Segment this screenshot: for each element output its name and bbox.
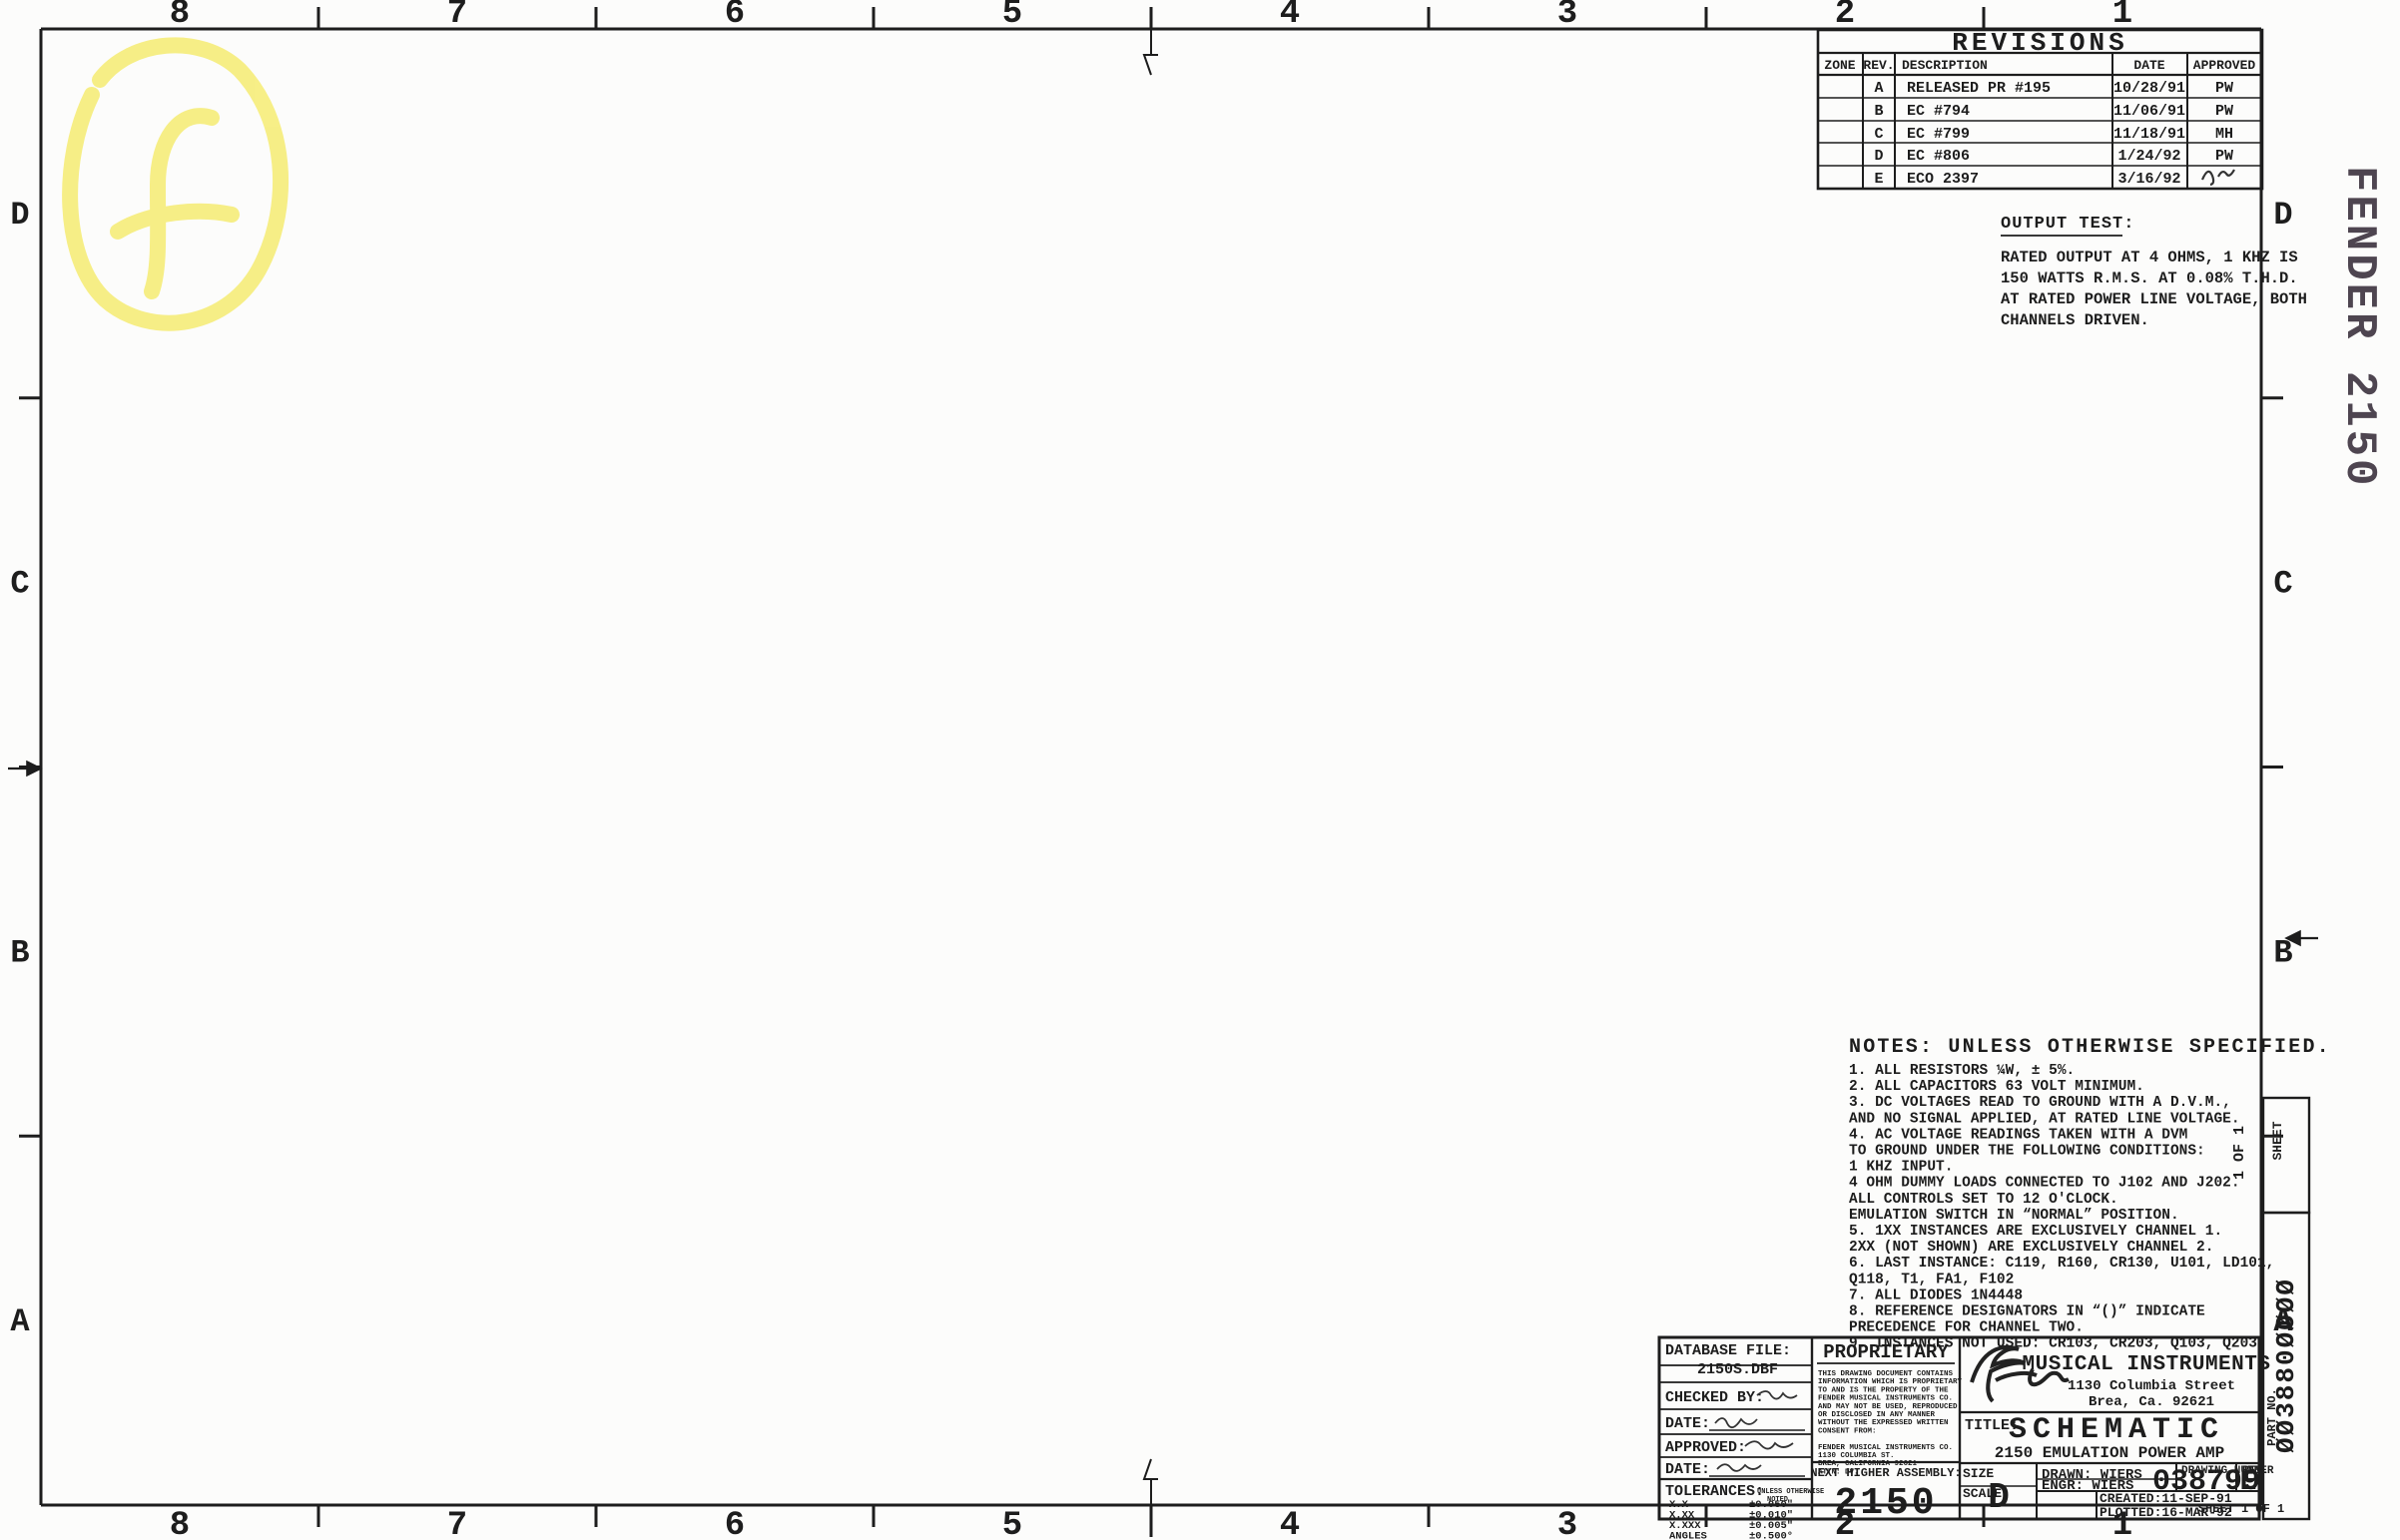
svg-text:6. LAST INSTANCE: C119, R160,: 6. LAST INSTANCE: C119, R160, CR130, U10… — [1849, 1256, 2274, 1272]
svg-text:1 OF 1: 1 OF 1 — [2231, 1126, 2248, 1180]
svg-text:DATE:: DATE: — [1665, 1415, 1710, 1432]
svg-text:ANGLES: ANGLES — [1669, 1531, 1707, 1540]
svg-text:11/18/91: 11/18/91 — [2113, 126, 2185, 143]
svg-text:SHEET: SHEET — [2270, 1121, 2285, 1160]
svg-text:CHANNELS DRIVEN.: CHANNELS DRIVEN. — [2001, 311, 2149, 329]
svg-text:Q118, T1, FA1, F102: Q118, T1, FA1, F102 — [1849, 1272, 2014, 1287]
svg-text:7. ALL DIODES 1N4448: 7. ALL DIODES 1N4448 — [1849, 1287, 2023, 1303]
svg-text:A: A — [10, 1303, 30, 1340]
svg-text:EC #794: EC #794 — [1907, 103, 1970, 120]
svg-text:E: E — [1874, 171, 1883, 188]
svg-text:ØØ3880ØØØØ: ØØ3880ØØØØ — [2271, 1278, 2301, 1453]
svg-text:8. REFERENCE DESIGNATORS IN “(: 8. REFERENCE DESIGNATORS IN “()” INDICAT… — [1849, 1304, 2205, 1320]
svg-text:B: B — [10, 934, 29, 971]
svg-text:DATE: DATE — [2133, 58, 2164, 73]
svg-text:D: D — [10, 197, 29, 234]
svg-text:2150: 2150 — [1834, 1482, 1937, 1525]
svg-text:A: A — [1874, 80, 1883, 97]
svg-text:3: 3 — [1557, 1507, 1577, 1540]
svg-text:CHECKED BY:: CHECKED BY: — [1665, 1389, 1764, 1406]
svg-text:DATABASE FILE:: DATABASE FILE: — [1665, 1342, 1791, 1359]
svg-text:TOLERANCES:: TOLERANCES: — [1665, 1483, 1764, 1500]
svg-text:8: 8 — [170, 0, 190, 33]
svg-text:INFORMATION WHICH IS PROPRIETA: INFORMATION WHICH IS PROPRIETARY — [1818, 1378, 1963, 1386]
svg-text:WITHOUT THE EXPRESSED WRITTEN: WITHOUT THE EXPRESSED WRITTEN — [1818, 1419, 1949, 1427]
svg-text:APPROVED:: APPROVED: — [1665, 1439, 1746, 1456]
svg-text:PRECEDENCE FOR CHANNEL TWO.: PRECEDENCE FOR CHANNEL TWO. — [1849, 1320, 2084, 1336]
svg-text:ZONE: ZONE — [1824, 58, 1855, 73]
svg-text:D: D — [1874, 148, 1883, 165]
svg-text:8: 8 — [170, 1507, 190, 1540]
svg-text:1 KHZ INPUT.: 1 KHZ INPUT. — [1849, 1160, 1953, 1176]
svg-text:RELEASED PR #195: RELEASED PR #195 — [1907, 80, 2051, 97]
svg-text:UNLESS OTHERWISE: UNLESS OTHERWISE — [1757, 1488, 1824, 1496]
svg-text:REV.: REV. — [1863, 58, 1894, 73]
svg-text:6: 6 — [725, 0, 745, 33]
svg-text:±0.500°: ±0.500° — [1749, 1531, 1793, 1540]
svg-text:B: B — [1874, 103, 1883, 120]
svg-text:150 WATTS R.M.S. AT 0.08% T.H.: 150 WATTS R.M.S. AT 0.08% T.H.D. — [2001, 269, 2298, 287]
svg-text:SHEET 1 OF 1: SHEET 1 OF 1 — [2198, 1502, 2284, 1516]
svg-text:RATED OUTPUT AT 4 OHMS, 1 KHZ: RATED OUTPUT AT 4 OHMS, 1 KHZ IS — [2001, 249, 2298, 266]
svg-text:ECO 2397: ECO 2397 — [1907, 171, 1979, 188]
svg-text:APPROVED: APPROVED — [2193, 58, 2256, 73]
svg-text:OUTPUT TEST:: OUTPUT TEST: — [2001, 215, 2134, 234]
svg-text:C: C — [1874, 126, 1883, 143]
svg-text:TO GROUND UNDER THE FOLLOWING: TO GROUND UNDER THE FOLLOWING CONDITIONS… — [1849, 1144, 2205, 1160]
svg-text:NOTES: UNLESS OTHERWISE SPECIF: NOTES: UNLESS OTHERWISE SPECIFIED. — [1849, 1036, 2331, 1059]
svg-text:3. DC VOLTAGES READ TO GROUND: 3. DC VOLTAGES READ TO GROUND WITH A D.V… — [1849, 1095, 2231, 1111]
svg-text:FENDER MUSICAL INSTRUMENTS CO.: FENDER MUSICAL INSTRUMENTS CO. — [1818, 1444, 1953, 1452]
svg-text:4: 4 — [1280, 0, 1300, 33]
svg-text:5: 5 — [1002, 1507, 1022, 1540]
svg-text:11/06/91: 11/06/91 — [2113, 103, 2185, 120]
svg-text:2: 2 — [1835, 0, 1855, 33]
svg-text:3/16/92: 3/16/92 — [2117, 171, 2180, 188]
svg-text:6: 6 — [725, 1507, 745, 1540]
svg-text:AT RATED POWER LINE VOLTAGE, B: AT RATED POWER LINE VOLTAGE, BOTH — [2001, 290, 2307, 308]
svg-text:TO AND IS THE PROPERTY OF THE: TO AND IS THE PROPERTY OF THE — [1818, 1386, 1949, 1394]
svg-text:5: 5 — [1002, 0, 1022, 33]
svg-text:EC #799: EC #799 — [1907, 126, 1970, 143]
svg-text:C: C — [10, 566, 29, 603]
svg-text:1130 COLUMBIA ST.: 1130 COLUMBIA ST. — [1818, 1452, 1895, 1460]
svg-text:2. ALL CAPACITORS 63 VOLT MINI: 2. ALL CAPACITORS 63 VOLT MINIMUM. — [1849, 1079, 2144, 1095]
svg-text:AND NO SIGNAL APPLIED, AT RATE: AND NO SIGNAL APPLIED, AT RATED LINE VOL… — [1849, 1111, 2240, 1127]
svg-text:PW: PW — [2215, 103, 2233, 120]
svg-text:4 OHM DUMMY LOADS CONNECTED TO: 4 OHM DUMMY LOADS CONNECTED TO J102 AND … — [1849, 1176, 2240, 1192]
svg-text:2XX (NOT SHOWN) ARE EXCLUSIVEL: 2XX (NOT SHOWN) ARE EXCLUSIVELY CHANNEL … — [1849, 1240, 2213, 1256]
svg-text:SCHEMATIC: SCHEMATIC — [2009, 1413, 2224, 1447]
svg-text:THIS DRAWING DOCUMENT CONTAINS: THIS DRAWING DOCUMENT CONTAINS — [1818, 1370, 1954, 1378]
svg-text:E: E — [2240, 1467, 2257, 1498]
svg-text:2150S.DBF: 2150S.DBF — [1697, 1361, 1778, 1378]
svg-text:7: 7 — [447, 0, 467, 33]
svg-text:SCALE:: SCALE: — [1963, 1486, 2010, 1501]
svg-text:1/24/92: 1/24/92 — [2117, 148, 2180, 165]
svg-text:3: 3 — [1557, 0, 1577, 33]
svg-text:EMULATION SWITCH IN “NORMAL” P: EMULATION SWITCH IN “NORMAL” POSITION. — [1849, 1208, 2179, 1224]
svg-text:REVISIONS: REVISIONS — [1952, 28, 2127, 58]
svg-text:4: 4 — [1280, 1507, 1300, 1540]
svg-text:AND MAY NOT BE USED, REPRODUCE: AND MAY NOT BE USED, REPRODUCED — [1818, 1403, 1958, 1411]
svg-text:1. ALL RESISTORS ¼W, ± 5%.: 1. ALL RESISTORS ¼W, ± 5%. — [1849, 1063, 2075, 1079]
svg-text:FENDER 2150: FENDER 2150 — [2334, 166, 2384, 488]
svg-text:DATE:: DATE: — [1665, 1461, 1710, 1478]
svg-text:4. AC VOLTAGE READINGS TAKEN W: 4. AC VOLTAGE READINGS TAKEN WITH A DVM — [1849, 1127, 2187, 1143]
svg-text:7: 7 — [447, 1507, 467, 1540]
svg-text:1130 Columbia Street: 1130 Columbia Street — [2068, 1378, 2235, 1394]
svg-text:C: C — [2273, 566, 2292, 603]
svg-text:D: D — [2273, 197, 2292, 234]
svg-text:PROPRIETARY: PROPRIETARY — [1823, 1341, 1949, 1363]
svg-text:MUSICAL INSTRUMENTS: MUSICAL INSTRUMENTS — [2023, 1353, 2271, 1376]
svg-text:10/28/91: 10/28/91 — [2113, 80, 2185, 97]
svg-text:2150 EMULATION POWER AMP: 2150 EMULATION POWER AMP — [1995, 1444, 2224, 1462]
svg-text:CONSENT FROM:: CONSENT FROM: — [1818, 1427, 1877, 1435]
svg-text:ALL CONTROLS SET TO 12 O'CLOCK: ALL CONTROLS SET TO 12 O'CLOCK. — [1849, 1192, 2118, 1208]
svg-text:PW: PW — [2215, 80, 2233, 97]
svg-text:FENDER MUSICAL INSTRUMENTS CO.: FENDER MUSICAL INSTRUMENTS CO. — [1818, 1395, 1953, 1403]
svg-text:Brea, Ca. 92621: Brea, Ca. 92621 — [2089, 1394, 2214, 1410]
svg-text:OR DISCLOSED IN ANY MANNER: OR DISCLOSED IN ANY MANNER — [1818, 1411, 1936, 1419]
svg-text:MH: MH — [2215, 126, 2233, 143]
svg-text:EC #806: EC #806 — [1907, 148, 1970, 165]
svg-text:DESCRIPTION: DESCRIPTION — [1902, 58, 1988, 73]
svg-text:NEXT HIGHER ASSEMBLY:: NEXT HIGHER ASSEMBLY: — [1810, 1466, 1961, 1480]
svg-text:PW: PW — [2215, 148, 2233, 165]
svg-text:5. 1XX INSTANCES ARE EXCLUSIVE: 5. 1XX INSTANCES ARE EXCLUSIVELY CHANNEL… — [1849, 1224, 2222, 1240]
